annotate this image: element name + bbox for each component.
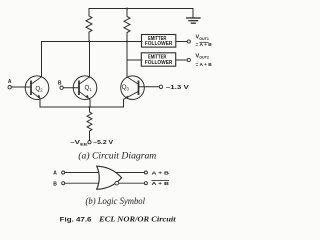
svg-text:A: A [8, 79, 12, 85]
node -1.3V terminal [159, 85, 162, 88]
wire Q1 collector riser [89, 42, 91, 78]
wire rail2 (OR collector node to EF2) [127, 59, 142, 61]
svg-text:A + B: A + B [152, 170, 170, 176]
wire Q2 collector riser [41, 42, 43, 77]
svg-text:= A + B: = A + B [196, 62, 213, 68]
wire EF1 output [176, 41, 187, 43]
junction R1 / rail1 / Q1 collector [89, 41, 91, 43]
node gate B terminal [62, 182, 65, 185]
wire emitter rail [40, 106, 124, 108]
transistor Q3 [121, 76, 145, 100]
transistor Q1 [73, 76, 97, 100]
wire gate input A [65, 172, 99, 174]
wire Q3 emitter drop [123, 99, 125, 107]
wire gate output OR [115, 172, 144, 174]
node B terminal [60, 86, 63, 89]
resistor R2 [124, 9, 130, 77]
svg-text:VOUT2: VOUT2 [196, 53, 209, 59]
svg-text:ECL NOR/OR Circuit: ECL NOR/OR Circuit [98, 215, 177, 223]
svg-text:A + B: A + B [152, 181, 170, 187]
wire top rail [89, 8, 193, 10]
svg-text:–5.2 V: –5.2 V [93, 140, 114, 146]
wire Q3 base to -1.3V [139, 86, 160, 88]
emitter follower box 1 [142, 35, 176, 48]
wire Q1 emitter drop [89, 100, 91, 107]
wire input B [63, 87, 79, 89]
resistor R1 [86, 9, 92, 42]
svg-text:FOLLOWER: FOLLOWER [145, 60, 173, 66]
wire input A [11, 86, 31, 88]
transistor Q2 [25, 76, 49, 101]
svg-text:–1.3 V: –1.3 V [166, 85, 190, 91]
node gate A terminal [62, 171, 65, 174]
node A terminal [8, 86, 11, 89]
wire Q2 emitter drop [39, 101, 41, 107]
resistor RE [87, 107, 92, 140]
node gate OR terminal [144, 171, 147, 174]
junction rail1 / R2 crossing [126, 41, 128, 43]
svg-text:(b) Logic Symbol: (b) Logic Symbol [86, 196, 146, 206]
NOR bubble [115, 181, 119, 185]
svg-text:VOUT1: VOUT1 [196, 35, 209, 41]
node -VEE terminal [88, 141, 91, 144]
node VOUT2 terminal [187, 58, 190, 61]
gate body [97, 166, 122, 189]
junction top rail / R2 [126, 8, 128, 10]
emitter follower box 2 [141, 53, 175, 66]
svg-text:A: A [53, 171, 57, 177]
wire EF2 output [176, 59, 187, 61]
ground [187, 18, 201, 23]
svg-text:B: B [58, 80, 62, 86]
svg-text:Q1: Q1 [85, 84, 93, 91]
node gate NOR terminal [144, 182, 147, 185]
svg-text:Fig. 47.6: Fig. 47.6 [60, 216, 93, 223]
svg-text:(a) Circuit Diagram: (a) Circuit Diagram [78, 150, 157, 160]
node VOUT1 terminal [187, 40, 190, 43]
svg-text:= A + B: = A + B [196, 42, 213, 48]
wire rail1 (NOR collector node to EF1) [42, 41, 143, 43]
junction emitter rail / RE [89, 106, 91, 108]
svg-text:FOLLOWER: FOLLOWER [145, 41, 173, 47]
wire gate output NOR [119, 182, 145, 184]
wire gate input B [65, 182, 99, 184]
svg-text:Q3: Q3 [122, 84, 130, 91]
logic symbol: OR/NOR gate [65, 166, 145, 189]
svg-text:Q2: Q2 [35, 85, 43, 92]
wire ground drop [192, 9, 194, 18]
svg-text:–VEE: –VEE [70, 140, 88, 146]
svg-text:B: B [53, 181, 57, 187]
